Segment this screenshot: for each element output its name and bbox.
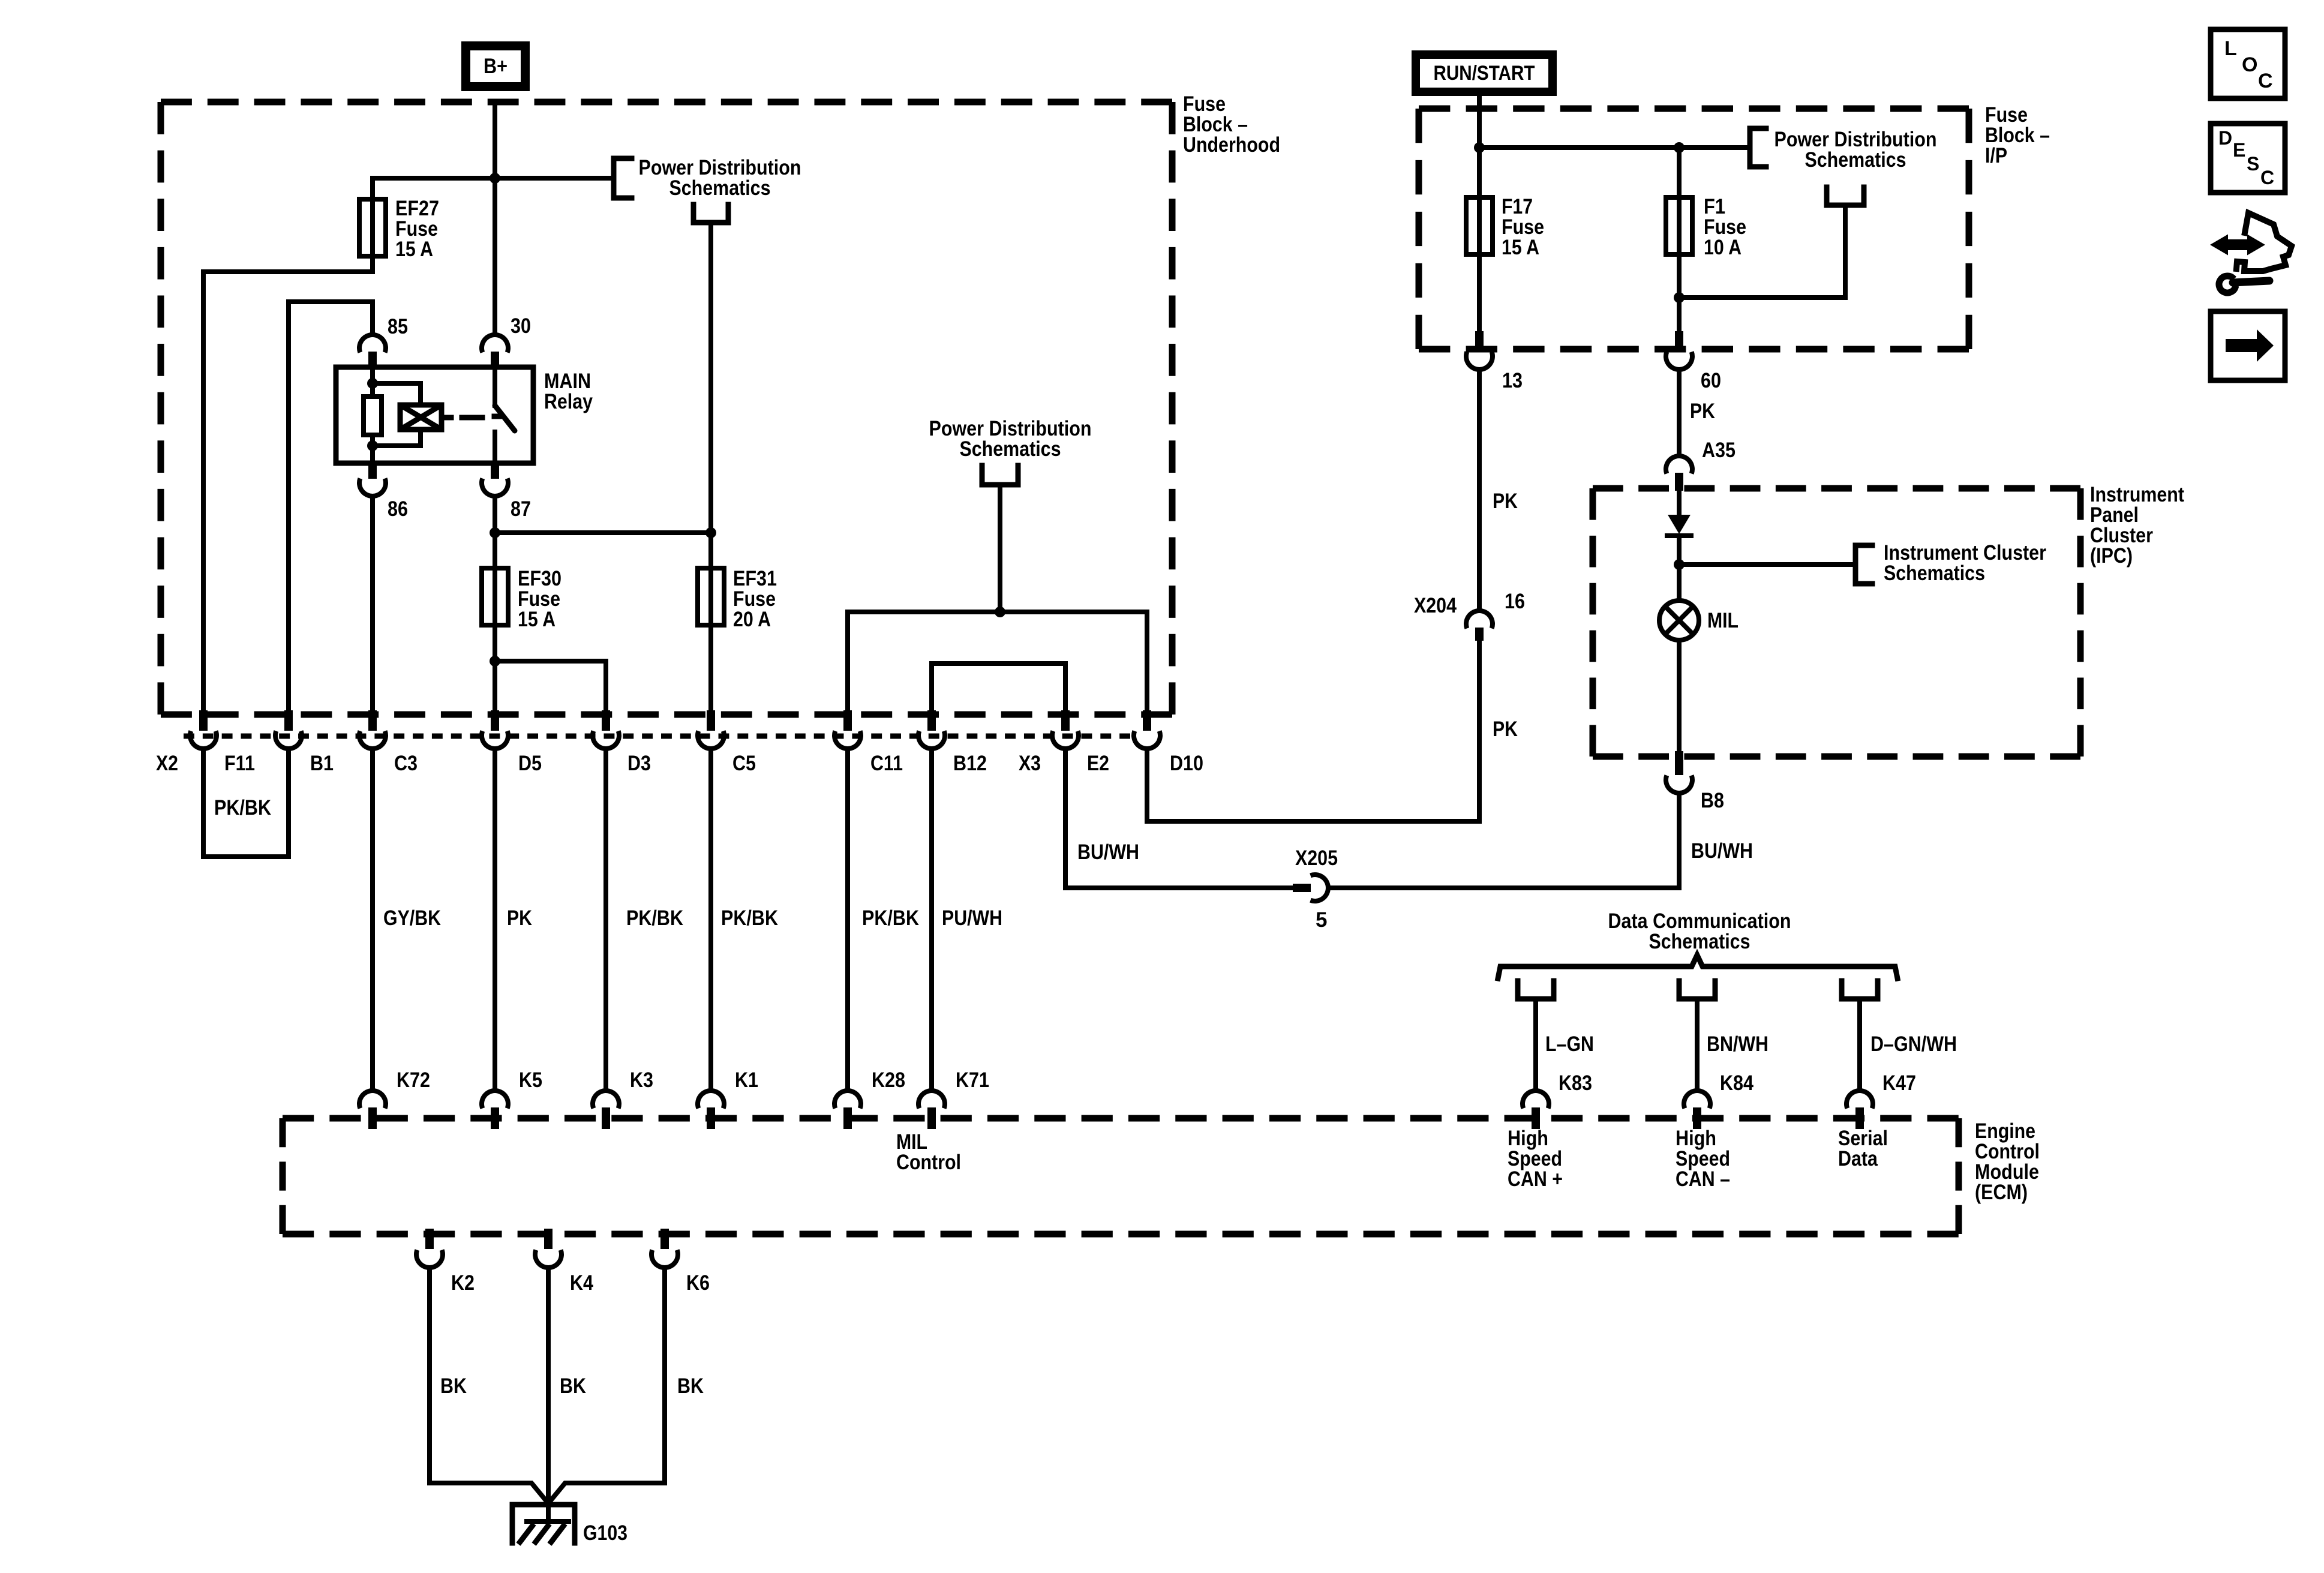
wire F11 to B1 loop (PK/BK) <box>203 749 289 857</box>
relay coil to armature link <box>442 415 451 421</box>
data communication brace <box>1498 955 1897 978</box>
svg-text:Schematics: Schematics <box>1884 562 1985 585</box>
MIL indicator lamp <box>1659 601 1699 640</box>
svg-text:PK/BK: PK/BK <box>862 906 919 930</box>
wire down to B12 <box>929 664 934 712</box>
svg-text:(ECM): (ECM) <box>1975 1181 2028 1204</box>
wire K6 to ground (BK) <box>548 1268 665 1503</box>
wire EF30 junction to D3 <box>495 661 606 712</box>
icon: DESC box <box>2211 124 2285 193</box>
svg-text:5: 5 <box>1316 908 1327 932</box>
wire K4 to ground (BK) <box>546 1268 551 1521</box>
cup bracket middle power distribution <box>982 466 1018 485</box>
connector pin C5 <box>707 710 715 731</box>
wire F1 output to cup bracket <box>1679 205 1845 298</box>
ECM pin K83 <box>1523 1091 1549 1108</box>
svg-text:60: 60 <box>1701 369 1721 392</box>
svg-text:PU/WH: PU/WH <box>942 906 1002 930</box>
fuse block - underhood (dashed outline) <box>161 99 1172 106</box>
inline connector X205 <box>1293 884 1311 892</box>
svg-text:B+: B+ <box>484 55 508 78</box>
relay pin 86 connector <box>368 463 377 479</box>
ECM pin K84 <box>1684 1091 1710 1108</box>
ECM pin K5 <box>482 1091 508 1108</box>
wire EF30 to D5 <box>493 625 497 712</box>
svg-text:10 A: 10 A <box>1704 236 1742 259</box>
wire D10 to X204 <box>1147 641 1479 821</box>
inline connector A35 <box>1666 456 1692 473</box>
wire D3 to K3 (PK/BK) <box>603 749 608 1091</box>
wire K2 to ground (BK) <box>430 1268 548 1503</box>
svg-text:C5: C5 <box>732 752 756 775</box>
svg-text:K1: K1 <box>735 1068 758 1092</box>
relay switch blade <box>495 406 515 431</box>
svg-text:G103: G103 <box>583 1521 627 1545</box>
svg-text:X205: X205 <box>1295 846 1338 870</box>
wire C3 to K72 (GY/BK) <box>370 749 375 1091</box>
svg-text:15 A: 15 A <box>518 608 556 631</box>
node: EF30 output junction <box>490 656 500 667</box>
svg-text:E: E <box>2233 139 2245 161</box>
connector pin B8 <box>1675 751 1683 775</box>
svg-text:Control: Control <box>896 1151 961 1174</box>
node: MIL / cluster feed junction <box>1674 559 1685 570</box>
inline connector X204 <box>1466 611 1493 628</box>
cup bracket K47 feed <box>1842 981 1878 999</box>
node: B+ / EF27 junction <box>490 173 500 184</box>
relay coil loop top wire <box>373 383 421 405</box>
wire B+ down to relay pin 30 <box>493 102 497 335</box>
connector pin B1 <box>284 710 293 731</box>
svg-text:PK: PK <box>1493 718 1518 741</box>
svg-text:K2: K2 <box>451 1271 475 1295</box>
svg-text:15 A: 15 A <box>395 238 433 261</box>
wire EF27 to F11 <box>203 256 373 712</box>
wire junction to EF31 <box>495 530 711 535</box>
relay coil loop bottom wire <box>373 430 421 446</box>
connector pin C3 <box>368 710 377 731</box>
wire down to D10 <box>1145 612 1149 712</box>
svg-text:K4: K4 <box>570 1271 593 1295</box>
node: relay coil bottom junction <box>367 440 378 451</box>
wire junction to instrument cluster bracket <box>1679 562 1855 567</box>
svg-text:D10: D10 <box>1170 752 1203 775</box>
connector pin B12 <box>927 710 936 731</box>
wire C11 to K28 (PK/BK) <box>845 749 850 1091</box>
svg-text:D5: D5 <box>518 752 542 775</box>
wire C11 to D10 tie <box>848 610 1147 614</box>
svg-text:F11: F11 <box>224 752 255 775</box>
MAIN relay box <box>336 367 533 463</box>
relay switch upper contact <box>493 368 497 406</box>
svg-text:Schematics: Schematics <box>1805 148 1906 172</box>
cup bracket K83 feed <box>1518 981 1554 999</box>
svg-text:RUN/START: RUN/START <box>1434 62 1535 85</box>
wire 87 down to EF30 <box>493 496 497 568</box>
icon: diagnostic double arrow <box>2212 236 2263 253</box>
svg-text:I/P: I/P <box>1985 144 2007 167</box>
wire B12 to E2 tie <box>932 661 1065 666</box>
relay coil (solenoid) symbol <box>400 405 442 430</box>
svg-text:Data: Data <box>1838 1147 1878 1170</box>
bracket to Instrument Cluster Schematics <box>1855 545 1872 584</box>
node: C11/D10 feed junction <box>995 607 1005 617</box>
svg-text:PK/BK: PK/BK <box>626 906 683 930</box>
icon: wrench <box>2219 276 2236 293</box>
svg-text:BU/WH: BU/WH <box>1691 839 1753 863</box>
node: F1 output junction <box>1674 292 1685 303</box>
svg-text:Relay: Relay <box>544 390 593 413</box>
svg-text:86: 86 <box>388 497 408 521</box>
svg-text:PK: PK <box>507 906 532 930</box>
svg-text:BU/WH: BU/WH <box>1077 840 1139 864</box>
svg-text:PK: PK <box>1493 490 1518 513</box>
wire cup to EF31 junction <box>708 223 713 533</box>
svg-text:X3: X3 <box>1019 752 1041 775</box>
ground G103 symbol <box>512 1505 575 1543</box>
svg-text:(IPC): (IPC) <box>2090 544 2133 568</box>
svg-text:PK: PK <box>1690 400 1715 423</box>
svg-text:GY/BK: GY/BK <box>383 906 441 930</box>
cup bracket K84 feed <box>1679 981 1715 999</box>
icon: LOC box <box>2211 29 2285 98</box>
wire K47 drop (D-GN/WH) <box>1857 999 1862 1091</box>
svg-text:K28: K28 <box>872 1068 905 1092</box>
instrument panel cluster (dashed outline) <box>1593 485 2080 492</box>
svg-text:L–GN: L–GN <box>1545 1032 1594 1056</box>
connector pin F11 <box>199 710 208 731</box>
fuse F1 <box>1666 197 1692 254</box>
svg-text:K5: K5 <box>519 1068 542 1092</box>
B+ power feed symbol <box>461 41 530 91</box>
connector pin D3 <box>602 710 610 731</box>
node: relay coil top junction <box>367 378 378 389</box>
svg-text:Underhood: Underhood <box>1183 133 1280 157</box>
svg-text:C11: C11 <box>870 752 903 775</box>
svg-text:Schematics: Schematics <box>1649 930 1750 953</box>
wire middle feed down <box>998 485 1002 612</box>
svg-text:CAN –: CAN – <box>1676 1167 1730 1191</box>
svg-text:85: 85 <box>388 315 408 338</box>
svg-text:K6: K6 <box>686 1271 710 1295</box>
svg-text:O: O <box>2242 53 2257 76</box>
svg-text:X204: X204 <box>1414 594 1457 617</box>
svg-text:16: 16 <box>1505 590 1525 613</box>
wire junction to EF27 and Power Distribution bracket <box>373 176 614 181</box>
fuse F17 <box>1466 197 1493 254</box>
wire X205 to B8 (BU/WH) <box>1329 793 1679 888</box>
wire A35 into IPC <box>1677 491 1682 515</box>
svg-text:K47: K47 <box>1882 1071 1916 1095</box>
ECM pin K3 <box>593 1091 619 1108</box>
bracket to Power Distribution Schematics (I/P) <box>1750 128 1766 167</box>
wire X204 up to fuse block pin 13 <box>1477 370 1482 611</box>
wire down to E2 <box>1063 664 1068 712</box>
connector pin D10 <box>1143 710 1151 731</box>
svg-text:S: S <box>2247 153 2259 175</box>
fuse EF31 <box>698 568 724 625</box>
svg-text:A35: A35 <box>1702 439 1736 462</box>
svg-text:C: C <box>2260 167 2274 188</box>
relay pin 30 connector <box>482 335 508 352</box>
svg-text:BK: BK <box>440 1374 467 1398</box>
wire down into EF27 <box>370 178 375 199</box>
relay pin 87 connector <box>491 463 499 479</box>
wire C5 to K1 (PK/BK) <box>708 749 713 1091</box>
wire D5 to K5 (PK) <box>493 749 497 1091</box>
svg-text:Schematics: Schematics <box>960 437 1061 461</box>
wire pin 60 to A35 (PK) <box>1677 370 1682 456</box>
ECM pin K1 <box>698 1091 724 1108</box>
node: RUN/START junction <box>1474 142 1485 153</box>
wire F1 feed down <box>1677 148 1682 334</box>
engine control module (dashed outline) <box>283 1115 1959 1122</box>
wire B1 up to relay pin 85 <box>289 302 373 710</box>
ECM pin K72 <box>359 1091 386 1108</box>
ECM pin K71 <box>918 1091 945 1108</box>
wire B12 to K71 (PU/WH) <box>929 749 934 1091</box>
ECM pin K6 <box>660 1229 669 1249</box>
fuse block - I/P (dashed outline) <box>1419 106 1969 112</box>
svg-text:E2: E2 <box>1087 752 1109 775</box>
relay switch lower contact <box>493 432 497 463</box>
svg-text:B12: B12 <box>953 752 987 775</box>
wire junction to Power Distribution bracket (I/P) <box>1479 145 1750 150</box>
svg-text:B8: B8 <box>1701 789 1724 812</box>
diode CR1 (IPC) <box>1668 515 1691 534</box>
svg-text:K84: K84 <box>1720 1071 1753 1095</box>
icon: diagnostic outline shape <box>2236 213 2292 271</box>
svg-text:X2: X2 <box>156 752 178 775</box>
wire RUN/START down through F17 <box>1477 98 1482 334</box>
connector pin 60 <box>1675 331 1683 352</box>
wire K83 drop (L-GN) <box>1533 999 1538 1091</box>
node: EF31 top junction <box>705 527 716 538</box>
connector pin 13 <box>1475 331 1484 352</box>
svg-text:MIL: MIL <box>1707 609 1739 632</box>
svg-text:PK/BK: PK/BK <box>214 796 271 819</box>
RUN/START power feed symbol <box>1412 50 1557 96</box>
svg-text:87: 87 <box>511 497 531 521</box>
connector pin E2 <box>1061 710 1070 731</box>
node: F1 feed junction <box>1674 142 1685 153</box>
svg-text:B1: B1 <box>310 752 334 775</box>
svg-text:30: 30 <box>511 314 531 338</box>
icon: forward arrow box <box>2211 311 2285 380</box>
svg-text:D: D <box>2218 127 2232 149</box>
svg-text:BK: BK <box>560 1374 586 1398</box>
svg-text:D3: D3 <box>627 752 651 775</box>
wire MIL down to B8 <box>1677 640 1682 751</box>
svg-text:13: 13 <box>1502 369 1523 392</box>
relay coil feed wire <box>370 367 375 397</box>
svg-text:D–GN/WH: D–GN/WH <box>1870 1032 1957 1056</box>
svg-text:15 A: 15 A <box>1502 236 1539 259</box>
svg-text:K83: K83 <box>1559 1071 1592 1095</box>
connector pin D5 <box>491 710 499 731</box>
ECM pin K4 <box>544 1229 553 1249</box>
cup bracket from Power Distribution Schematics down-feed <box>693 205 728 223</box>
cup bracket power distribution (I/P) <box>1827 187 1864 205</box>
connector pin C11 <box>843 710 852 731</box>
node: 87 / EF30 / EF31 junction <box>490 527 500 538</box>
wire K84 drop (BN/WH) <box>1695 999 1700 1091</box>
svg-text:K3: K3 <box>630 1068 653 1092</box>
svg-text:K71: K71 <box>956 1068 989 1092</box>
wire 86 to C3 <box>370 496 375 712</box>
relay suppression resistor <box>364 397 382 435</box>
wire down to C11 <box>845 612 850 712</box>
underhood fuse block connector face (dotted) <box>184 734 1130 739</box>
ECM pin K2 <box>425 1229 434 1249</box>
svg-text:BK: BK <box>677 1374 704 1398</box>
svg-text:K72: K72 <box>397 1068 430 1092</box>
svg-text:20 A: 20 A <box>733 608 771 631</box>
relay pin 85 connector <box>359 335 386 352</box>
wire diode to MIL junction <box>1677 538 1682 601</box>
svg-text:Schematics: Schematics <box>669 176 771 200</box>
ECM pin K47 <box>1846 1091 1873 1108</box>
wire EF31 to C5 <box>708 625 713 712</box>
svg-text:CAN +: CAN + <box>1508 1167 1563 1191</box>
fuse EF27 <box>359 199 386 256</box>
wire EF31 junction down <box>708 533 713 568</box>
svg-text:BN/WH: BN/WH <box>1707 1032 1768 1056</box>
ECM pin K28 <box>834 1091 861 1108</box>
fuse EF30 <box>482 568 508 625</box>
svg-text:C3: C3 <box>394 752 418 775</box>
svg-text:PK/BK: PK/BK <box>721 906 778 930</box>
relay armature dashed link <box>462 415 482 421</box>
relay resistor bottom wire <box>370 435 375 463</box>
svg-text:C: C <box>2258 70 2273 92</box>
bracket to Power Distribution Schematics (underhood) <box>614 158 632 198</box>
wire E2 to X205 (BU/WH) <box>1065 749 1293 888</box>
svg-text:L: L <box>2224 37 2237 60</box>
